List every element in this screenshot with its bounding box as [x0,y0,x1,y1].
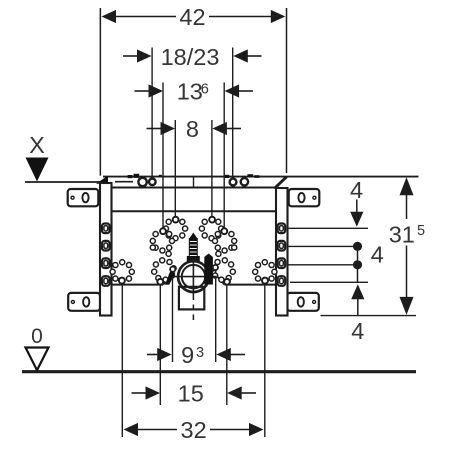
extension line 42-left [99,8,101,176]
clamp crosshair horizontal [170,276,216,278]
dimension 4 above rail bottom [351,284,364,344]
wall bracket bottom-left [68,293,100,311]
top fastener group left [115,174,162,186]
right rail anchor hole y=281.0 [278,276,286,286]
dimension 8 [147,116,242,142]
svg-text:15: 15 [178,381,204,407]
leader end circle 15-right [224,279,230,285]
web bottom edge left diagonal [163,277,171,285]
leader 18/23-left [151,48,153,179]
clamp crosshair vertical [192,259,194,295]
leader end circle 18/23-left [149,179,156,186]
web bottom edge right diagonal [218,277,225,285]
web bottom edge right segment [225,284,277,286]
left rail anchor hole y=245.7 [102,241,110,251]
wall bracket top-right [289,189,320,206]
leader end circle 9.3-left [170,267,175,272]
svg-text:3: 3 [196,345,204,361]
hole rosette far-right [253,260,277,282]
hole rosette far-left [110,260,134,282]
left rail anchor hole y=281.0 [102,276,110,286]
leader end circle 32-right [262,278,268,284]
floor level marker triangle (open) [26,348,49,371]
clamp left jaw [165,270,175,285]
spacing dots 4 [353,241,384,282]
leader 13.6-left [162,83,164,229]
drain centreline dashes [192,295,194,323]
svg-text:4: 4 [350,177,363,203]
hole-row reference line 2 [289,245,356,247]
svg-text:4: 4 [371,241,384,267]
svg-text:18/23: 18/23 [161,44,220,70]
pipe clamp outer ring [178,261,209,292]
leader end circle 8-right [209,217,215,223]
leader 18/23-right [232,48,234,179]
top rail corner wedge left [96,176,108,184]
wall bracket top-left [68,189,99,206]
top reference line [103,176,419,178]
svg-text:42: 42 [179,4,205,30]
web bottom edge left segment [112,284,164,286]
svg-text:4: 4 [351,318,364,344]
top rail right corner chamfer [274,177,286,189]
dimension 9-3 [147,342,245,368]
dimension 18/23 [123,44,262,70]
hole rosette cluster right-center [199,219,236,282]
top rail centre tick [193,177,195,187]
dimension 13-6 [135,78,254,104]
leader 8-right [211,120,213,217]
leader 32-right [264,284,266,438]
left rail [100,183,112,316]
leader 9.3-right [215,271,217,363]
threaded rod [187,233,200,263]
top fastener group right [225,174,259,185]
leader 13.6-right [223,83,225,229]
dimension 4 top-right [350,177,363,227]
X level line [25,181,101,183]
svg-text:31: 31 [389,222,415,248]
pipe clamp inner ring [182,265,205,288]
leader 9.3-left [172,272,174,362]
right rail anchor hole y=245.7 [278,241,286,251]
svg-text:5: 5 [417,223,425,239]
leader 15-right [226,285,228,405]
leader end circle 13.6-right [221,228,227,234]
svg-text:13: 13 [177,78,203,104]
hole-row reference line 1 [289,227,369,229]
leader 32-left [121,284,123,438]
clamp right bolt [204,254,213,285]
right rail anchor hole y=263.2 [278,258,286,268]
leader end circle 32-left [119,278,125,284]
dimension 42 [102,4,286,30]
hole rosette cluster left-center [150,219,187,282]
dimension 31-5 [389,177,425,315]
svg-text:8: 8 [186,116,199,142]
svg-text:6: 6 [201,82,209,98]
top rail front face top edge [107,187,276,189]
right rail anchor hole y=228.3 [278,224,286,234]
leader 8-left [174,120,176,217]
top rail left corner chamfer [101,182,108,189]
extension line 42-right [286,8,288,173]
leader end circle 8-left [173,217,179,223]
left rail anchor hole y=228.3 [102,224,110,234]
hole-row reference line 3 [289,264,356,266]
X level marker triangle (solid) [26,158,49,182]
dimension 15 [132,381,257,407]
right rail [276,188,288,316]
left rail anchor hole y=263.2 [102,258,110,268]
rail bottom reference line [321,315,417,317]
leader end circle 13.6-left [160,228,166,234]
svg-text:32: 32 [181,417,207,443]
drain trap box [179,287,204,310]
leader 15-left [159,285,161,405]
floor line (0 level) [22,370,416,373]
leader end circle 18/23-right [230,179,237,186]
leader end circle 9.3-right [213,265,218,270]
svg-text:0: 0 [31,325,43,348]
svg-text:9: 9 [181,342,194,368]
svg-text:X: X [29,132,45,158]
top rail front face bottom edge [100,210,288,212]
leader end circle 15-left [157,279,163,285]
wall bracket bottom-right [287,293,319,311]
dimension 32 [124,417,264,443]
web bottom reference line [290,281,368,283]
